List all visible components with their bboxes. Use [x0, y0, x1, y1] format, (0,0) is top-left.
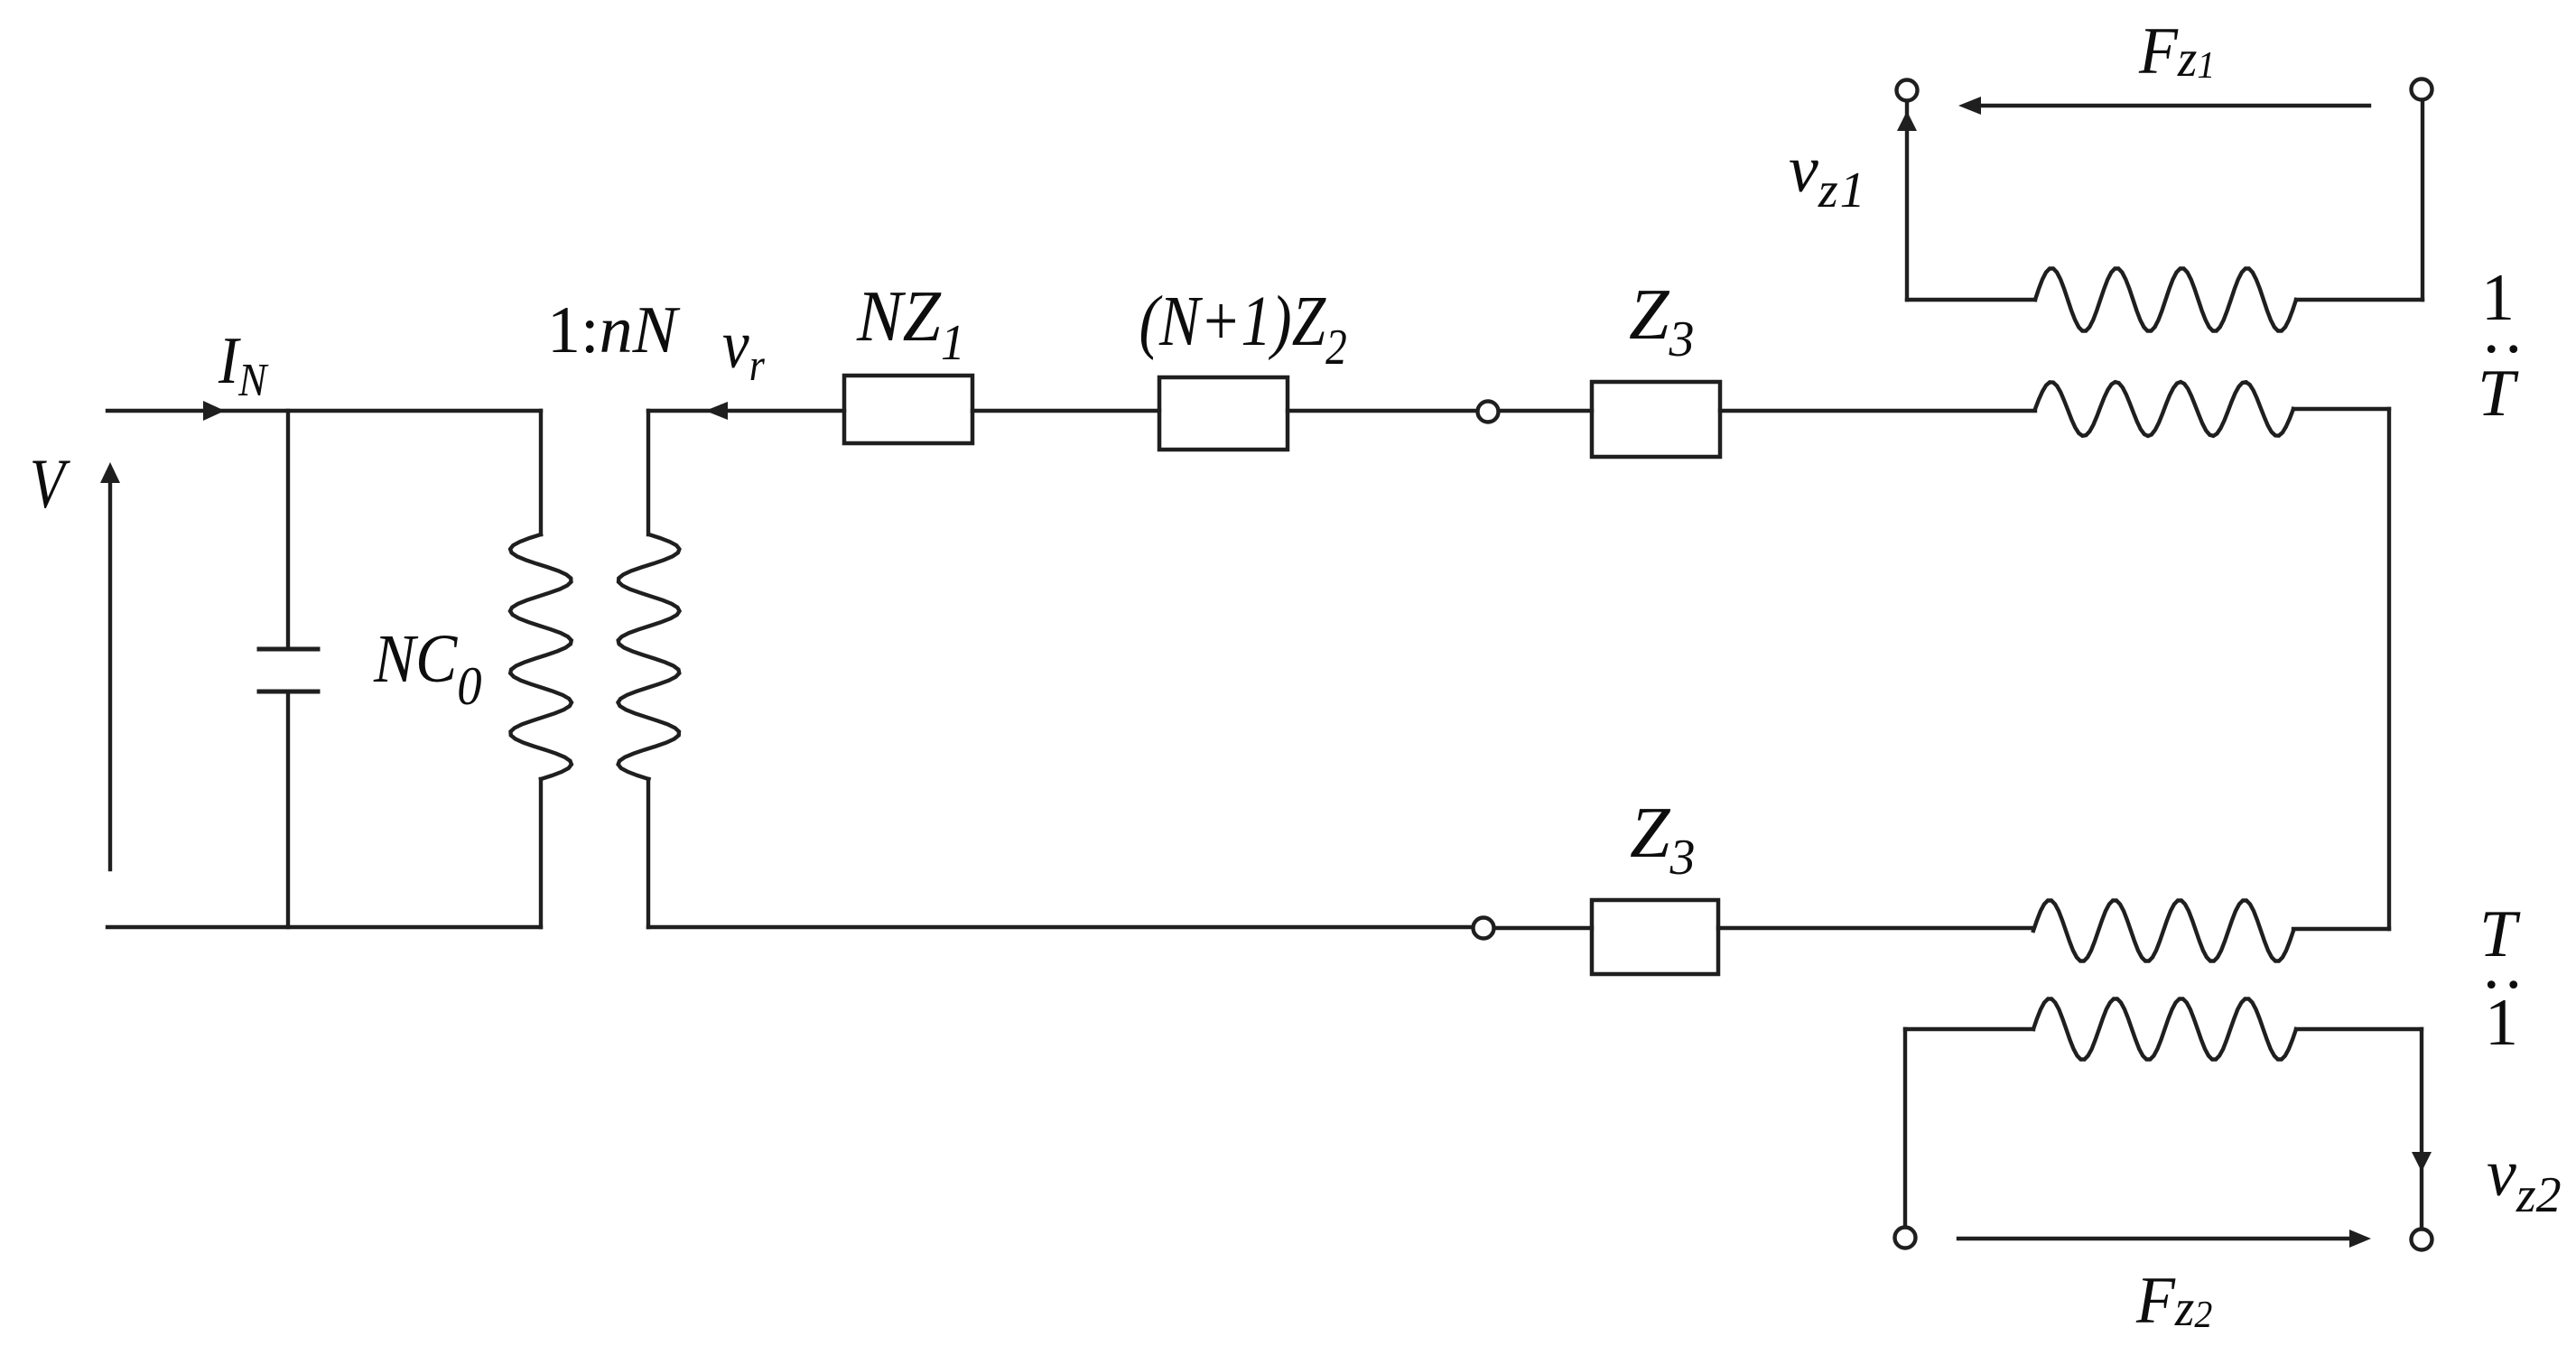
capacitor NC0 plates [259, 649, 318, 692]
svg-text:vr: vr [722, 307, 765, 391]
arrowhead V voltage arrow [100, 462, 120, 483]
wire top 1-winding left lead [1907, 298, 2035, 302]
transformer secondary coil [618, 534, 680, 779]
wire top 1-winding right lead [2296, 298, 2423, 302]
arrow line V [108, 484, 112, 869]
arrowhead v_r arrow [705, 402, 728, 420]
svg-text:1: 1 [2485, 986, 2518, 1060]
wire bottom rail left [107, 925, 541, 929]
wire NZ1 to (N+1)Z2 [972, 409, 1159, 413]
wire capacitor branch bottom [286, 692, 290, 927]
wire Z3 top to 1:T coil [1720, 409, 2035, 413]
arrow line Fz1 [1983, 104, 2369, 107]
inductor T:1 secondary (1) winding coil [2033, 999, 2296, 1060]
arrowhead v_z2 arrow [2412, 1152, 2432, 1172]
wire bottom 1-winding left lead [1905, 1027, 2033, 1031]
terminal circle top-left [1897, 80, 1918, 101]
wire T coil to right corner [2293, 407, 2389, 411]
wire top 1-winding left terminal riser [1905, 101, 1909, 300]
wire bottom 1-winding left terminal drop [1903, 1029, 1907, 1227]
svg-text:NC0: NC0 [373, 620, 482, 717]
transformer primary top stub [539, 411, 543, 534]
terminal circle bottom-right [2412, 1230, 2432, 1250]
arrowhead Fz2 arrow [2349, 1230, 2371, 1248]
inductor T:1 primary (T) coil [2033, 901, 2293, 961]
inductor 1:T secondary (T) coil [2035, 382, 2293, 436]
svg-text:vz1: vz1 [1789, 133, 1867, 218]
wire vertical connector between transformers [2387, 409, 2391, 929]
wire bottom 1-winding right lead [2296, 1027, 2422, 1031]
wire top rail left (source to transformer primary) [107, 409, 541, 413]
resistor (N+1)Z2 [1159, 377, 1288, 450]
node B junction circle bottom [1474, 918, 1494, 939]
transformer secondary top stub [646, 411, 650, 534]
wire Z3 bottom to T:1 coil [1718, 926, 2033, 930]
wire bottom T coil to right corner [2293, 927, 2389, 931]
transformer primary bottom stub [539, 779, 543, 927]
svg-text:1:nN: 1:nN [547, 293, 681, 367]
wire bottom rail transformer to node [648, 925, 1473, 929]
svg-text:NZ1: NZ1 [856, 275, 965, 370]
svg-text:vz2: vz2 [2487, 1137, 2562, 1223]
transformer primary coil [510, 534, 572, 779]
resistor Z3 bottom [1592, 900, 1718, 974]
transformer secondary bottom stub [646, 779, 650, 927]
node A junction circle top [1478, 402, 1499, 422]
svg-text:Fz1: Fz1 [2138, 14, 2215, 88]
svg-text:Z3: Z3 [1630, 794, 1696, 886]
arrowhead I_N current arrow [203, 401, 225, 421]
inductor 1:T primary (1) winding coil [2035, 269, 2296, 331]
terminal circle top-right [2412, 79, 2432, 100]
arrowhead Fz1 arrow [1958, 97, 1981, 115]
wire capacitor branch top [286, 411, 290, 649]
svg-text:T: T [2478, 357, 2519, 431]
svg-text:IN: IN [218, 324, 269, 406]
svg-text:Z3: Z3 [1629, 275, 1695, 367]
svg-text:V: V [30, 445, 71, 523]
terminal circle bottom-left [1895, 1228, 1916, 1249]
arrow line Fz2 [1958, 1237, 2348, 1240]
wire top 1-winding right terminal riser [2421, 100, 2424, 300]
svg-text:Fz2: Fz2 [2135, 1263, 2212, 1337]
wire (N+1)Z2 to node [1288, 409, 1477, 413]
svg-text:(N+1)Z2: (N+1)Z2 [1139, 282, 1347, 376]
arrowhead v_z1 arrow [1897, 111, 1917, 131]
wire node to Z3 bottom [1494, 926, 1592, 930]
wire secondary top rail to NZ1 [648, 409, 844, 413]
resistor Z3 top [1592, 382, 1720, 457]
resistor NZ1 [844, 376, 972, 443]
wire node to Z3 top [1499, 409, 1592, 413]
wire bottom 1-winding right terminal drop [2420, 1029, 2423, 1229]
